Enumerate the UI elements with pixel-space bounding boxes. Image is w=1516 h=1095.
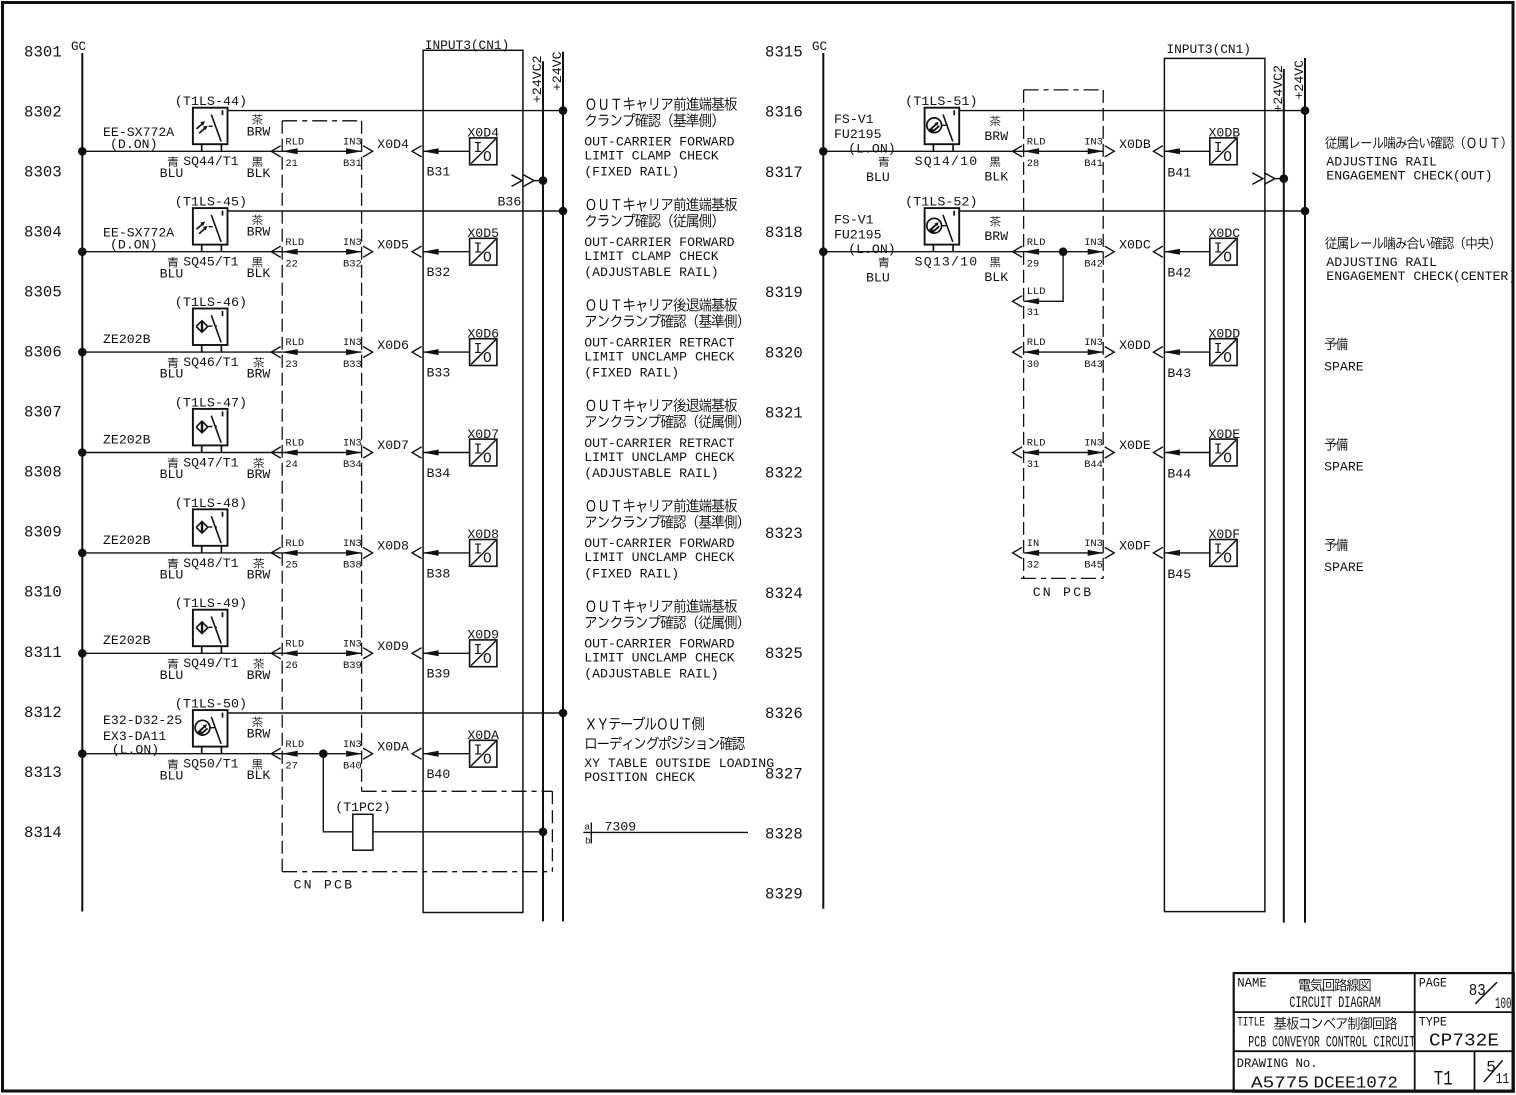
svg-text:B41: B41 [1167,165,1191,180]
arrow out of CN PCB (IN3 side) [363,447,373,458]
svg-text:GC: GC [812,40,828,54]
svg-text:8324: 8324 [765,585,803,603]
svg-text:B33: B33 [427,366,451,381]
svg-text:OUT-CARRIER FORWARD: OUT-CARRIER FORWARD [584,135,734,150]
svg-text:(L.ON): (L.ON) [112,743,159,758]
svg-text:8305: 8305 [24,284,62,302]
svg-text:B39: B39 [427,667,451,682]
svg-text:(FIXED RAIL): (FIXED RAIL) [584,566,679,581]
svg-text:B34: B34 [343,459,362,471]
sensor SQ13/10 (T1LS-52) [925,208,960,252]
label RLD pin 29 [1027,237,1046,271]
arrow into INPUT3 connector [1153,246,1163,257]
sensor SQ49/T1 (T1LS-49) [193,610,228,654]
label RLD pin 22 [285,237,304,271]
svg-text:IN3: IN3 [343,739,362,751]
wire RLD to IN3 inside CN PCB [1024,150,1104,152]
title block PAGE cell 83/100 [1419,976,1512,1014]
svg-text:RLD: RLD [285,538,304,550]
wire from sensor top to +24VC rail [228,210,564,212]
svg-text:X0D6: X0D6 [467,326,499,341]
svg-text:SPARE: SPARE [1324,460,1364,475]
svg-text:SQ44/T1: SQ44/T1 [183,154,238,169]
svg-text:O: O [1223,351,1232,367]
svg-text:X0D4: X0D4 [467,126,499,141]
label RLD pin 30 [1027,337,1046,371]
svg-text:B45: B45 [1167,567,1191,582]
label IN3 pin B33 [343,337,362,371]
svg-text:SQ48/T1: SQ48/T1 [183,556,238,571]
arrow into CN PCB (RLD side) [271,246,281,257]
wire row X0DA from GC rail to CN PCB [82,753,282,755]
svg-text:+24VC: +24VC [1292,60,1307,100]
arrow out of CN PCB (IN3 side) [363,648,373,659]
svg-text:CIRCUIT DIAGRAM: CIRCUIT DIAGRAM [1289,994,1381,1012]
svg-text:SQ45/T1: SQ45/T1 [183,255,238,270]
svg-text:BLU: BLU [866,170,890,185]
wire into I/O port X0DF [1164,552,1209,554]
I/O port symbol X0D6 [470,339,497,367]
svg-text:LIMIT UNCLAMP CHECK: LIMIT UNCLAMP CHECK [584,450,734,465]
svg-text:X0D5: X0D5 [377,237,409,252]
svg-text:B41: B41 [1084,158,1103,170]
svg-text:X0DC: X0DC [1119,237,1151,252]
wire RLD to IN3 inside CN PCB [1024,251,1104,253]
label IN3 pin B42 [1084,237,1103,271]
svg-text:24: 24 [285,459,297,471]
svg-text:O: O [483,251,492,267]
svg-text:8328: 8328 [765,826,803,844]
sensor SQ14/10 (T1LS-51) [925,108,960,152]
label RLD pin 26 [285,638,304,672]
arrow out of CN PCB (IN3 side) [363,547,373,558]
svg-text:I: I [474,242,483,258]
svg-text:B38: B38 [343,560,362,572]
svg-text:X0D8: X0D8 [467,527,499,542]
svg-text:IN3: IN3 [1084,337,1103,349]
svg-text:8313: 8313 [24,764,62,782]
description text row X0DD [1324,338,1364,375]
I/O port symbol X0D8 [470,540,497,568]
svg-text:B42: B42 [1084,258,1103,270]
svg-text:X0DD: X0DD [1209,326,1241,341]
svg-text:PAGE: PAGE [1419,976,1447,991]
svg-text:8308: 8308 [24,464,62,482]
I/O port symbol X0D4 [470,138,497,166]
wire colour labels [160,215,271,282]
arrow into CN PCB (RLD side) [271,748,281,759]
svg-text:BLK: BLK [247,768,271,783]
svg-text:(ADJUSTABLE RAIL): (ADJUSTABLE RAIL) [584,265,719,280]
svg-text:I: I [474,744,483,760]
description text row X0DF [1324,538,1364,575]
svg-text:B43: B43 [1084,359,1103,371]
svg-text:LIMIT UNCLAMP CHECK: LIMIT UNCLAMP CHECK [584,349,734,364]
label IN3 pin B31 [343,136,362,170]
svg-text:+24VC: +24VC [550,51,565,91]
svg-text:X0D5: X0D5 [467,226,499,241]
svg-text:B31: B31 [343,158,362,170]
svg-text:31: 31 [1027,459,1039,471]
label IN3 pin B44 [1084,438,1103,472]
svg-text:O: O [483,150,492,166]
arrow into INPUT3 connector [1153,347,1163,358]
svg-text:ZE202B: ZE202B [103,432,151,447]
svg-text:FS-V1: FS-V1 [834,212,874,227]
svg-text:8325: 8325 [765,645,803,663]
svg-text:(T1LS-46): (T1LS-46) [175,295,247,310]
svg-text:27: 27 [285,760,297,772]
wire colour labels [160,659,271,683]
node junction on GC rail [79,348,87,356]
sensor SQ47/T1 (T1LS-47) [193,409,228,453]
arrow into INPUT3 connector [412,447,422,458]
wire down from X0DA row to T1PC2 [323,754,353,832]
svg-text:+24VC2: +24VC2 [530,56,545,103]
svg-text:B33: B33 [343,359,362,371]
svg-text:LLD: LLD [1027,286,1046,298]
wire row X0D8 from GC rail to CN PCB [82,552,282,554]
I/O port symbol X0DD [1210,339,1237,367]
arrow into INPUT3 connector [1153,146,1163,157]
wire from sensor top to +24VC rail [959,210,1305,212]
svg-text:CP732E: CP732E [1429,1031,1499,1052]
svg-text:B43: B43 [1167,366,1191,381]
svg-text:X0D7: X0D7 [377,438,409,453]
svg-text:TITLE: TITLE [1237,1015,1265,1030]
svg-text:O: O [1223,251,1232,267]
svg-text:8326: 8326 [765,705,803,723]
svg-text:8315: 8315 [765,44,803,62]
title block NAME cell [1237,976,1381,1013]
node junction on GC rail [79,148,87,156]
wire row X0D7 from GC rail to CN PCB [82,452,282,454]
arrow out of CN PCB (IN3 side) [363,347,373,358]
I/O port symbol X0DC [1210,238,1237,266]
svg-text:11: 11 [1496,1072,1510,1088]
svg-text:X0DB: X0DB [1209,126,1241,141]
svg-text:O: O [483,552,492,568]
wire into I/O port X0DA [423,753,470,755]
label RLD pin 25 [285,538,304,572]
component T1PC2 [353,814,373,850]
wire into I/O port X0D7 [423,452,470,454]
svg-text:8304: 8304 [24,223,62,241]
wire into I/O port X0DE [1164,452,1209,454]
junction node on X0DC row for LLD branch [1059,248,1067,256]
wire row X0DC from GC rail to CN PCB [823,251,1023,253]
svg-text:LIMIT CLAMP CHECK: LIMIT CLAMP CHECK [584,249,719,264]
svg-text:LIMIT UNCLAMP CHECK: LIMIT UNCLAMP CHECK [584,550,734,565]
svg-text:30: 30 [1027,359,1039,371]
svg-text:X0DE: X0DE [1119,438,1151,453]
svg-text:SPARE: SPARE [1324,560,1364,575]
connector INPUT3(CN1) left [423,50,523,912]
label sensor type [103,225,174,252]
svg-text:BLU: BLU [160,668,184,683]
svg-text:BLU: BLU [160,768,184,783]
svg-text:ADJUSTING RAIL: ADJUSTING RAIL [1326,255,1437,270]
svg-text:RLD: RLD [1027,136,1046,148]
wire into I/O port X0D4 [423,150,470,152]
wire colour labels [160,114,271,181]
power rail +24VC2 (left) [542,61,544,921]
svg-text:ZE202B: ZE202B [103,633,151,648]
svg-text:I: I [474,442,483,458]
svg-text:22: 22 [285,258,297,270]
line numbers 8301-8314 [24,43,62,842]
svg-text:BRW: BRW [247,727,271,742]
svg-text:FU2195: FU2195 [834,127,882,142]
label RLD pin 21 [285,136,304,170]
svg-text:BLU: BLU [866,271,890,286]
svg-text:T1: T1 [1434,1069,1453,1092]
arrow into INPUT3 connector [412,246,422,257]
svg-text:BRW: BRW [247,225,271,240]
arrow out of CN PCB (IN3 side) [363,246,373,257]
svg-text:I: I [474,342,483,358]
svg-text:X0DC: X0DC [1209,226,1241,241]
wire from T1PC2 to +24VC2 rail [373,831,543,833]
svg-text:7309: 7309 [605,820,637,835]
svg-text:BLU: BLU [160,367,184,382]
svg-text:8311: 8311 [24,644,62,662]
node on +24VC rail [559,107,567,115]
svg-text:8306: 8306 [24,344,62,362]
description text row X0D7 [584,398,741,481]
svg-text:POSITION CHECK: POSITION CHECK [584,770,695,785]
net GC (right) vertical rail [822,53,824,909]
label IN3 pin B43 [1084,337,1103,371]
svg-text:X0DB: X0DB [1119,137,1151,152]
label RLD pin 28 [1027,136,1046,170]
node junction on GC rail [79,750,87,758]
svg-text:BLU: BLU [160,266,184,281]
wire from sensor top to +24VC rail [228,110,564,112]
svg-text:BRW: BRW [247,668,271,683]
svg-text:IN3: IN3 [343,337,362,349]
wire into I/O port X0D6 [423,351,470,353]
svg-text:(FIXED RAIL): (FIXED RAIL) [584,165,679,180]
svg-text:O: O [483,351,492,367]
wire colour labels [160,558,271,582]
wire row X0DB from GC rail to CN PCB [823,150,1023,152]
svg-text:B42: B42 [1167,266,1191,281]
svg-text:(FIXED RAIL): (FIXED RAIL) [584,366,679,381]
svg-text:8321: 8321 [765,405,803,423]
svg-text:BLK: BLK [984,170,1008,185]
svg-text:IN3: IN3 [343,237,362,249]
label RLD pin 24 [285,438,304,472]
svg-text:29: 29 [1027,258,1039,270]
svg-text:LIMIT CLAMP CHECK: LIMIT CLAMP CHECK [584,149,719,164]
svg-text:A5775: A5775 [1251,1073,1309,1092]
svg-text:X0D6: X0D6 [377,338,409,353]
svg-text:8303: 8303 [24,163,62,181]
node B36 stub arrow to +24VC2 rail [512,175,547,187]
label LLD pin 31 [1027,286,1046,319]
wire into I/O port X0DB [1164,150,1209,152]
svg-text:BLK: BLK [984,270,1008,285]
svg-text:I: I [1214,141,1223,157]
svg-text:I: I [1214,242,1223,258]
svg-text:BLK: BLK [247,166,271,181]
svg-text:CN PCB: CN PCB [294,878,355,893]
svg-text:32: 32 [1027,560,1039,572]
svg-text:ADJUSTING RAIL: ADJUSTING RAIL [1326,154,1437,169]
svg-text:8302: 8302 [24,103,62,121]
title block DRAWING No cell [1237,1056,1398,1092]
svg-text:(L.ON): (L.ON) [848,142,895,157]
arrow out of CN PCB (IN3 side) [1105,547,1115,558]
svg-text:CN PCB: CN PCB [1033,585,1094,600]
net GC (left) vertical rail [81,53,83,912]
line numbers 8315-8329 [765,44,803,904]
label IN pin 32 [1027,538,1039,572]
junction node on X0DA row for T1PC2 branch [320,750,328,758]
svg-text:8319: 8319 [765,284,803,302]
svg-text:O: O [1223,150,1232,166]
svg-text:25: 25 [285,560,297,572]
label RLD pin 31 [1027,438,1046,472]
wire RLD to IN3 inside CN PCB [282,351,361,353]
svg-text:b: b [585,835,591,846]
svg-text:O: O [483,451,492,467]
arrow out of CN PCB (IN3 side) [363,146,373,157]
arrow into CN PCB (RLD side) [1013,146,1023,157]
description text row X0DB [1325,136,1504,183]
arrow into CN PCB (RLD side) [271,146,281,157]
wire colour labels [866,116,1008,185]
label sensor type [103,432,151,447]
svg-text:28: 28 [1027,158,1039,170]
wire RLD to IN3 inside CN PCB [282,753,361,755]
svg-text:ZE202B: ZE202B [103,533,151,548]
wire RLD to IN3 inside CN PCB [1024,452,1104,454]
label sensor type FS-V1 FU2195 [834,112,896,157]
svg-text:RLD: RLD [1027,438,1046,450]
arrow out of CN PCB (IN3 side) [1105,146,1115,157]
node on +24VC rail [1301,207,1309,215]
svg-text:OUT-CARRIER FORWARD: OUT-CARRIER FORWARD [584,536,734,551]
wire into I/O port X0D8 [423,552,470,554]
svg-text:ENGAGEMENT CHECK(CENTER): ENGAGEMENT CHECK(CENTER) [1326,269,1516,284]
arrow out of CN PCB (IN3 side) [363,748,373,759]
label sensor type [103,633,151,648]
wire colour labels [160,458,271,482]
svg-text:BRW: BRW [247,467,271,482]
arrow into CN PCB (RLD side) [271,547,281,558]
svg-text:I: I [474,141,483,157]
svg-text:B45: B45 [1084,560,1103,572]
label IN3 pin B32 [343,237,362,271]
svg-text:(T1LS-44): (T1LS-44) [175,94,247,109]
svg-text:I: I [1214,543,1223,559]
svg-text:(T1LS-49): (T1LS-49) [175,596,247,611]
description text row X0DA [584,716,774,784]
svg-text:8307: 8307 [24,404,62,422]
arrow into INPUT3 connector [412,648,422,659]
svg-text:E32-D32-25: E32-D32-25 [103,713,182,728]
svg-text:SQ50/T1: SQ50/T1 [183,757,238,772]
arrow out of CN PCB (IN3 side) [1105,447,1115,458]
node junction on GC rail [79,248,87,256]
arrow into INPUT3 connector [1153,447,1163,458]
svg-text:IN3: IN3 [1084,136,1103,148]
svg-text:B38: B38 [427,566,451,581]
dashed PCB connector box CN PCB (right) [1021,90,1103,579]
wire into I/O port X0DC [1164,251,1209,253]
svg-text:FS-V1: FS-V1 [834,112,874,127]
arrow into CN PCB (RLD side) [271,648,281,659]
wire RLD to IN3 inside CN PCB [1024,351,1104,353]
wire row X0D4 from GC rail to CN PCB [82,150,282,152]
svg-text:(T1LS-47): (T1LS-47) [175,395,247,410]
svg-text:BRW: BRW [247,124,271,139]
svg-text:IN3: IN3 [343,438,362,450]
I/O port symbol X0D9 [470,640,497,668]
svg-text:RLD: RLD [1027,337,1046,349]
wire into I/O port X0D9 [423,652,470,654]
title block sheet T1 5/11 [1434,1059,1510,1092]
arrow out of CN PCB (IN3 side) [1105,246,1115,257]
svg-text:B32: B32 [427,265,451,280]
arrow into CN PCB (LLD) [1013,296,1023,307]
svg-text:RLD: RLD [1027,237,1046,249]
svg-text:26: 26 [285,660,297,672]
label IN3 pin B39 [343,638,362,672]
svg-text:8329: 8329 [765,886,803,904]
svg-text:RLD: RLD [285,739,304,751]
wire row X0D9 from GC rail to CN PCB [82,652,282,654]
svg-text:SQ13/10: SQ13/10 [915,255,979,270]
node on +24VC rail [559,709,567,717]
svg-text:X0DA: X0DA [377,739,409,754]
power rail +24VC2 (right) [1283,69,1285,923]
svg-text:8309: 8309 [24,524,62,542]
svg-text:B44: B44 [1084,459,1103,471]
label IN3 pin B34 [343,438,362,472]
svg-text:8314: 8314 [24,824,62,842]
wire RLD to IN3 inside CN PCB [282,251,361,253]
svg-text:X0DF: X0DF [1209,527,1241,542]
description text row X0D8 [584,499,741,582]
svg-text:100: 100 [1495,995,1512,1013]
svg-text:RLD: RLD [285,237,304,249]
wire colour labels [866,216,1008,285]
node on +24VC rail [559,207,567,215]
svg-text:ZE202B: ZE202B [103,332,151,347]
arrow into CN PCB (IN side) [1013,547,1023,558]
description text row X0DC [1325,237,1516,284]
description text row X0D9 [584,599,741,682]
svg-text:(T1LS-45): (T1LS-45) [175,195,247,210]
svg-text:8316: 8316 [765,104,803,122]
svg-text:8310: 8310 [24,584,62,602]
svg-text:RLD: RLD [285,136,304,148]
wire into I/O port X0DD [1164,351,1209,353]
svg-text:+24VC2: +24VC2 [1271,65,1286,112]
svg-text:(L.ON): (L.ON) [848,242,895,257]
svg-text:(T1LS-50): (T1LS-50) [175,697,247,712]
wire RLD to IN3 inside CN PCB [282,552,361,554]
arrow into INPUT3 connector [412,547,422,558]
svg-text:I: I [474,543,483,559]
svg-text:IN: IN [1027,538,1039,550]
svg-text:BLU: BLU [160,166,184,181]
power rail +24VC (left) [562,52,564,922]
svg-text:8318: 8318 [765,224,803,242]
